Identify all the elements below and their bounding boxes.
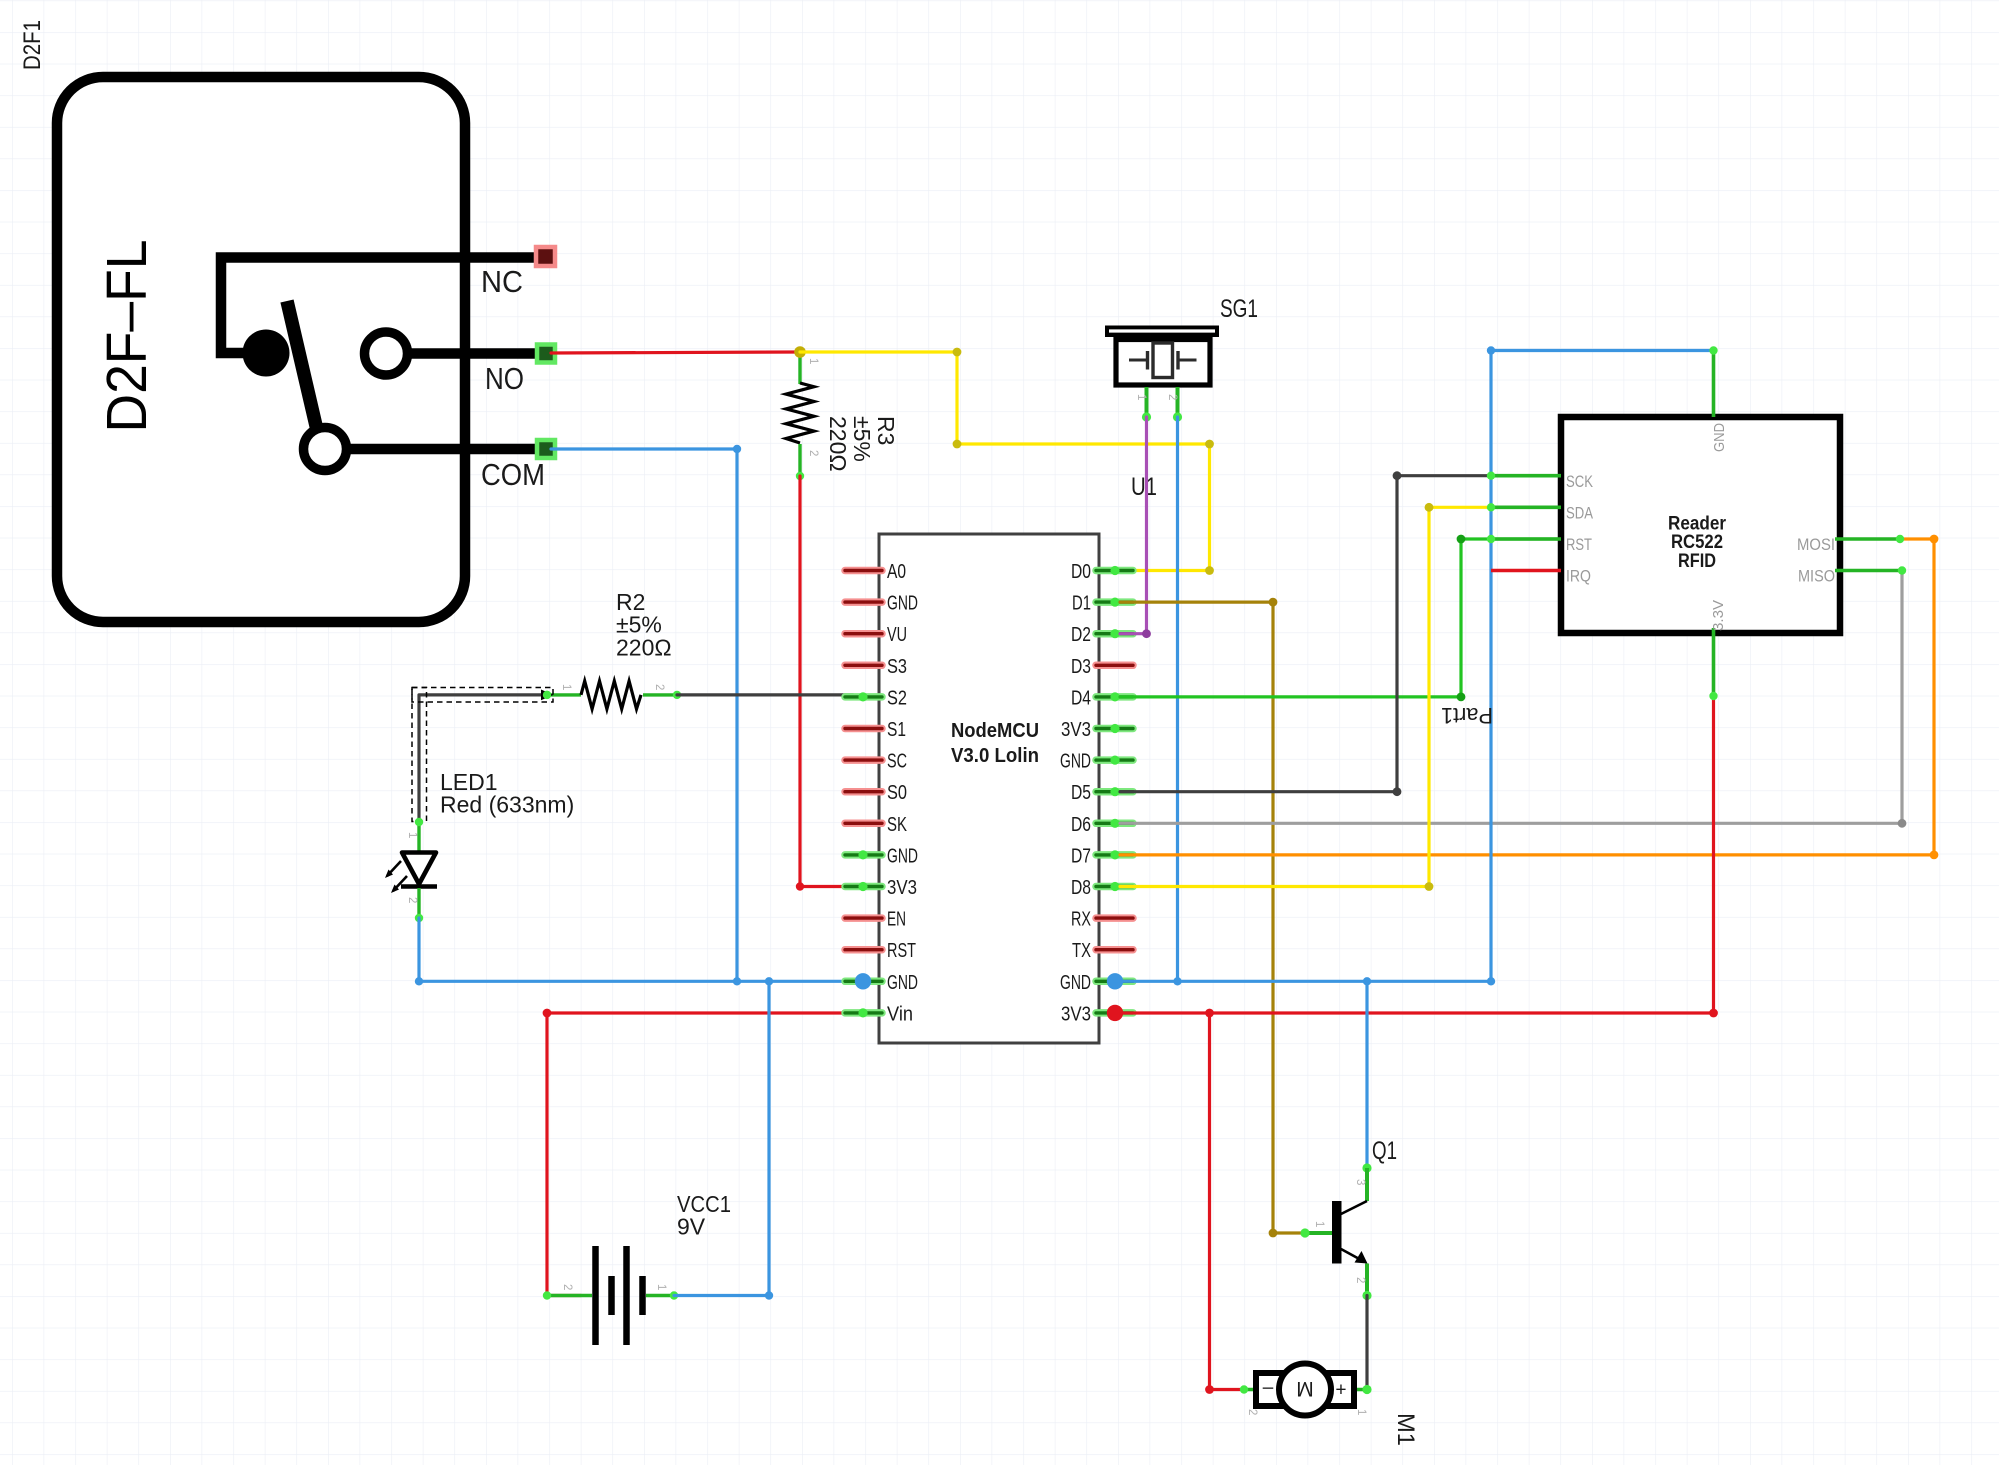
svg-text:D0: D0 (1071, 560, 1091, 583)
NodeMCU left pin 3V3 (row 11) (845, 883, 882, 891)
transistor Q1 (1362, 1163, 1371, 1172)
wire green: NodeMCU D4 to RC522 RST (1120, 539, 1558, 697)
switch COM terminal (537, 440, 555, 458)
svg-text:D4: D4 (1071, 686, 1091, 709)
wire red: NodeMCU 3V3 to RC522 3.3V (1115, 696, 1714, 1013)
node: COM wire joins GND bus (733, 977, 741, 985)
NodeMCU left pin S0 (row 8) (845, 788, 882, 796)
svg-text:SCK: SCK (1566, 473, 1593, 491)
svg-text:Vin: Vin (887, 1002, 913, 1025)
svg-text:D8: D8 (1071, 876, 1091, 899)
svg-text:S3: S3 (887, 655, 907, 678)
RC522 pin SDA (1491, 505, 1561, 509)
svg-text:1: 1 (1355, 1409, 1367, 1415)
RFID reader Part1 RC522 body (1561, 417, 1840, 633)
switch NC terminal (536, 247, 555, 266)
NodeMCU left pin EN (row 12) (845, 914, 882, 922)
wire blue: GND bus right to RC522 GND (1115, 351, 1714, 982)
wire blue: GND bus to Q1 collector (1365, 981, 1368, 1168)
svg-text:RX: RX (1071, 908, 1091, 931)
svg-text:D2F1: D2F1 (19, 20, 46, 70)
NodeMCU right pin D7 (row 10) (1096, 851, 1133, 859)
svg-text:GND: GND (1060, 971, 1091, 994)
svg-text:GND: GND (887, 971, 918, 994)
svg-text:U1: U1 (1131, 473, 1157, 501)
svg-text:Q1: Q1 (1372, 1137, 1397, 1165)
RC522 pin SCK (1491, 474, 1561, 478)
svg-text:D1: D1 (1072, 592, 1091, 615)
svg-text:S2: S2 (887, 686, 907, 709)
NodeMCU right pin D6 (row 9) (1096, 820, 1133, 828)
svg-text:S0: S0 (887, 781, 907, 804)
op-amp U1 NodeMCU module body (879, 534, 1099, 1043)
wire red: 3V3 branch to motor minus (1210, 1013, 1244, 1390)
svg-text:1: 1 (807, 358, 819, 364)
NodeMCU left pin SC (row 7) (845, 756, 882, 764)
svg-text:SG1: SG1 (1220, 295, 1258, 323)
wire blue: SG1 pin2 to GND bus (1176, 417, 1179, 981)
svg-text:3V3: 3V3 (887, 876, 917, 899)
NodeMCU right pin D8 (row 11) (1096, 883, 1133, 891)
svg-text:3V3: 3V3 (1061, 718, 1091, 741)
NodeMCU left pin A0 (row 1) (845, 567, 882, 575)
NodeMCU right pin D4 (row 5) (1096, 693, 1133, 701)
svg-text:D7: D7 (1071, 844, 1091, 867)
resistor R3 (798, 352, 801, 384)
wire blue: switch COM to GND bus (551, 449, 737, 981)
svg-text:1: 1 (560, 684, 572, 690)
NodeMCU right pin GND (row 14) (1096, 978, 1133, 986)
svg-text:EN: EN (887, 908, 906, 931)
svg-text:D5: D5 (1071, 781, 1091, 804)
svg-text:+: + (1335, 1378, 1346, 1399)
svg-text:2: 2 (561, 1284, 573, 1290)
wire red: R3 to NodeMCU 3V3 (800, 476, 853, 887)
svg-text:1: 1 (1135, 394, 1147, 400)
RC522 pin 3.3V (bottom) (1712, 628, 1716, 696)
RC522 pin MOSI (1835, 537, 1900, 541)
svg-text:1: 1 (1313, 1221, 1325, 1227)
switch COM pin line (347, 444, 546, 455)
svg-text:COM: COM (481, 457, 545, 492)
svg-text:SK: SK (887, 813, 907, 836)
wire red: switch NO to R3/node (551, 352, 800, 353)
svg-text:MISO: MISO (1798, 568, 1835, 586)
NodeMCU connection dots (858, 692, 867, 701)
wire yellow: NodeMCU D8 to RC522 SDA (1120, 507, 1493, 886)
switch COM contact circle (304, 428, 347, 471)
NodeMCU left pin S1 (row 6) (845, 725, 882, 733)
svg-text:MOSI: MOSI (1797, 536, 1835, 554)
svg-text:S1: S1 (887, 718, 906, 741)
NodeMCU left pin VU (row 3) (845, 630, 882, 638)
svg-text:IRQ: IRQ (1566, 568, 1591, 586)
svg-text:D6: D6 (1071, 813, 1091, 836)
wire red: NodeMCU Vin to battery pin2 (547, 1013, 853, 1296)
wire orange: NodeMCU D7 to RC522 MOSI (1120, 539, 1934, 855)
svg-text:2: 2 (807, 450, 819, 456)
NodeMCU right pin 3V3 (row 6) (1096, 725, 1133, 733)
svg-text:GND: GND (1711, 423, 1728, 452)
switch contact bracket (NC arm) (221, 258, 545, 354)
node: battery wire joins GND bus (765, 977, 773, 985)
RC522 pin GND (top) (1712, 351, 1716, 418)
wire purple: SG1 pin1 to NodeMCU D2 (1120, 417, 1147, 634)
NodeMCU right pin GND (row 7) (1096, 756, 1133, 764)
wire brown: NodeMCU D1 to Q1 base (1120, 602, 1305, 1233)
svg-text:1: 1 (655, 1284, 667, 1290)
NodeMCU left pin GND (row 14) (845, 978, 882, 986)
svg-text:GND: GND (1060, 750, 1091, 773)
svg-text:2: 2 (406, 897, 418, 903)
wire gray: LED1 anode to R2 (selected, dashed outline) (419, 695, 547, 822)
svg-text:3.3V: 3.3V (1710, 600, 1727, 631)
node: GND pin right (big) (1107, 973, 1123, 989)
NodeMCU left pin S3 (row 4) (845, 662, 882, 670)
NodeMCU right pin D3 (row 4) (1096, 662, 1133, 670)
svg-text:2: 2 (1246, 1409, 1258, 1415)
svg-text:RST: RST (887, 939, 916, 962)
LED1 emission arrows (387, 861, 401, 876)
NodeMCU left pin Vin (row 15) (845, 1009, 882, 1017)
node: GND pin left (big) (855, 973, 871, 989)
NodeMCU left pin RST (row 13) (845, 946, 882, 954)
battery VCC1 (547, 1294, 592, 1297)
svg-text:3: 3 (1354, 1179, 1366, 1185)
svg-text:Part1: Part1 (1441, 703, 1493, 728)
svg-text:2: 2 (1354, 1277, 1366, 1283)
svg-text:RST: RST (1566, 536, 1592, 554)
wire dark gray: NodeMCU D5 to RC522 SCK (1120, 476, 1493, 792)
svg-text:D2F–FL: D2F–FL (95, 240, 159, 433)
wire gray: R2 to NodeMCU S2 (677, 693, 853, 696)
switch NO pin line (408, 348, 546, 359)
NodeMCU right pin D5 (row 8) (1096, 788, 1133, 796)
LED1 (417, 822, 420, 853)
resistor R2 (547, 693, 581, 696)
svg-text:M1: M1 (1392, 1413, 1419, 1446)
NodeMCU right pin 3V3 (row 15) (1096, 1009, 1133, 1017)
wire light gray: NodeMCU D6 to RC522 MISO (1120, 571, 1902, 824)
svg-text:2: 2 (1166, 394, 1178, 400)
svg-text:NC: NC (481, 264, 523, 299)
switch lever (287, 301, 317, 430)
RC522 pin RST (1491, 537, 1561, 541)
RC522 pin MISO (1835, 569, 1902, 573)
wire gray: Q1 emitter to motor plus (1365, 1296, 1368, 1390)
svg-text:GND: GND (887, 592, 918, 615)
svg-text:1: 1 (406, 832, 418, 838)
switch NO contact circle (365, 332, 408, 375)
switch D2F1 body (57, 77, 465, 622)
svg-text:D2: D2 (1071, 623, 1091, 646)
RC522 pin IRQ (red wire stub) (1491, 569, 1561, 573)
NodeMCU left pin GND (row 2) (845, 598, 882, 606)
NodeMCU left pin S2 (row 5) (845, 693, 882, 701)
NodeMCU right pin D1 (row 2) (1096, 598, 1133, 606)
node: red branch to motor (1205, 1009, 1214, 1018)
svg-text:SDA: SDA (1566, 505, 1593, 523)
svg-text:2: 2 (653, 684, 665, 690)
svg-text:D3: D3 (1071, 655, 1091, 678)
NodeMCU right pin TX (row 13) (1096, 946, 1133, 954)
NodeMCU left pin SK (row 9) (845, 820, 882, 828)
switch NO terminal (537, 345, 555, 363)
NodeMCU right pin D0 (row 1) (1096, 567, 1133, 575)
buzzer SG1 (1105, 326, 1219, 338)
svg-text:A0: A0 (887, 560, 906, 583)
NodeMCU left pin GND (row 10) (845, 851, 882, 859)
svg-text:VU: VU (887, 623, 907, 646)
motor M1 (1241, 1388, 1258, 1392)
wire blue: battery pin1 to GND bus (674, 981, 769, 1295)
svg-text:3V3: 3V3 (1061, 1002, 1091, 1025)
node: NO/R3/yellow junction (794, 346, 806, 358)
wire yellow: node to NodeMCU D0 (800, 352, 1210, 571)
NodeMCU right pin D2 (row 3) (1096, 630, 1133, 638)
node: blue branch to Q1 collector (1363, 977, 1371, 985)
switch pivot (243, 330, 290, 377)
svg-text:SC: SC (887, 750, 907, 773)
svg-text:–: – (1262, 1378, 1273, 1399)
svg-text:GND: GND (887, 844, 918, 867)
svg-text:NO: NO (485, 361, 524, 396)
node: 3V3 pin right (big) (1107, 1005, 1123, 1021)
svg-text:M: M (1296, 1377, 1314, 1400)
wire blue: LED1 cathode to GND bus (419, 918, 853, 981)
NodeMCU right pin RX (row 12) (1096, 914, 1133, 922)
wire end arrow at R2 pin1 (541, 690, 554, 701)
svg-text:TX: TX (1072, 939, 1091, 962)
